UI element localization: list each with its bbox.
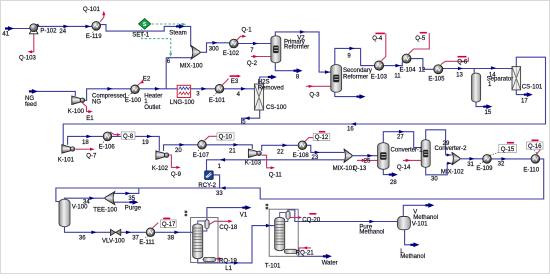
svg-text:CQ-20: CQ-20: [302, 217, 320, 223]
svg-text:13: 13: [456, 72, 463, 78]
svg-text:Q-16: Q-16: [528, 144, 542, 150]
svg-text:Secondary: Secondary: [343, 68, 373, 74]
svg-text:Purge: Purge: [125, 205, 142, 211]
svg-text:E-100: E-100: [125, 98, 142, 104]
svg-text:19: 19: [142, 140, 149, 146]
svg-text:CS-101: CS-101: [522, 85, 543, 91]
svg-text:K-102: K-102: [152, 166, 169, 172]
svg-text:Methanol: Methanol: [400, 254, 425, 260]
svg-text:Q-2: Q-2: [247, 61, 258, 67]
svg-text:Q-3: Q-3: [309, 93, 320, 99]
svg-text:RQ-21: RQ-21: [296, 251, 314, 257]
svg-text:RCY-2: RCY-2: [198, 183, 216, 189]
svg-text:LNG-100: LNG-100: [170, 100, 195, 106]
svg-text:V-100: V-100: [72, 205, 88, 211]
svg-text:30: 30: [431, 176, 438, 182]
svg-text:E3: E3: [231, 79, 239, 85]
svg-text:V-101: V-101: [412, 221, 428, 227]
svg-text:E-104: E-104: [400, 68, 417, 74]
svg-text:22: 22: [277, 149, 284, 155]
svg-text:Q-6: Q-6: [457, 59, 468, 65]
svg-text:Q-12: Q-12: [315, 135, 329, 141]
svg-text:Converter-1: Converter-1: [391, 148, 424, 154]
svg-text:Q-10: Q-10: [219, 135, 233, 141]
svg-text:MIX-102: MIX-102: [441, 170, 464, 176]
svg-text:41: 41: [2, 31, 9, 37]
svg-text:MIX-100: MIX-100: [180, 64, 203, 70]
svg-text:Steam: Steam: [169, 30, 186, 36]
svg-text:V2: V2: [297, 35, 305, 41]
svg-text:E1: E1: [86, 116, 94, 122]
svg-text:TEE-100: TEE-100: [93, 208, 117, 214]
svg-text:Q-5: Q-5: [415, 36, 426, 42]
svg-text:Reformer: Reformer: [284, 45, 309, 51]
svg-text:35: 35: [128, 196, 135, 202]
svg-text:Methanol: Methanol: [359, 229, 384, 235]
svg-text:E-119: E-119: [86, 34, 102, 40]
svg-text:P-102: P-102: [40, 28, 57, 34]
svg-text:V1: V1: [240, 212, 248, 218]
svg-text:33: 33: [216, 191, 223, 197]
svg-text:15: 15: [485, 110, 492, 116]
svg-text:Removed: Removed: [258, 86, 284, 92]
svg-text:24: 24: [59, 29, 66, 35]
svg-text:E-110: E-110: [523, 167, 539, 173]
svg-text:K-101: K-101: [58, 157, 75, 163]
svg-text:20: 20: [175, 148, 182, 154]
svg-text:T-101: T-101: [265, 263, 281, 269]
svg-text:E-105: E-105: [428, 77, 445, 83]
svg-text:Methanol: Methanol: [413, 215, 438, 221]
svg-text:32: 32: [498, 162, 505, 168]
svg-text:H2S: H2S: [258, 80, 270, 86]
svg-text:Q-1: Q-1: [242, 27, 253, 33]
svg-text:S: S: [143, 22, 147, 28]
svg-text:E-101: E-101: [209, 98, 226, 104]
svg-text:Q-103: Q-103: [19, 55, 36, 61]
svg-text:E-107: E-107: [193, 153, 210, 159]
svg-text:12: 12: [419, 68, 426, 74]
svg-text:E-108: E-108: [293, 153, 310, 159]
svg-text:11: 11: [394, 73, 401, 79]
svg-text:Q-4: Q-4: [372, 36, 383, 42]
svg-text:Q-14: Q-14: [397, 165, 411, 171]
svg-text:E-109: E-109: [476, 166, 493, 172]
svg-text:NG: NG: [92, 99, 101, 105]
svg-text:E2: E2: [143, 76, 151, 82]
svg-text:E-111: E-111: [139, 240, 155, 246]
svg-text:Q-17: Q-17: [162, 222, 176, 228]
svg-text:K-103: K-103: [245, 161, 262, 167]
svg-text:Q-101: Q-101: [83, 7, 100, 13]
svg-text:Q-8: Q-8: [123, 134, 134, 140]
svg-text:Reformer: Reformer: [343, 74, 368, 80]
svg-text:K-100: K-100: [68, 109, 85, 115]
svg-text:Converter-2: Converter-2: [435, 146, 468, 152]
svg-text:36: 36: [79, 236, 86, 242]
svg-text:RQ-19: RQ-19: [219, 258, 237, 264]
svg-text:18: 18: [82, 140, 89, 146]
svg-text:E-106: E-106: [99, 145, 116, 151]
svg-text:E-102: E-102: [223, 51, 240, 57]
svg-text:17: 17: [521, 98, 528, 104]
svg-text:16: 16: [347, 127, 354, 133]
svg-text:31: 31: [467, 162, 474, 168]
svg-text:CQ-18: CQ-18: [219, 225, 237, 231]
svg-text:23: 23: [312, 155, 319, 161]
svg-text:Q-13: Q-13: [353, 166, 367, 172]
svg-text:28: 28: [390, 180, 397, 186]
svg-text:Water: Water: [322, 260, 338, 266]
svg-text:Q-11: Q-11: [269, 172, 283, 178]
svg-text:300: 300: [209, 47, 220, 53]
svg-text:E-103: E-103: [371, 74, 388, 80]
svg-text:27: 27: [397, 135, 404, 141]
svg-text:25: 25: [364, 159, 371, 165]
svg-text:SET-1: SET-1: [132, 32, 149, 38]
svg-text:Q-15: Q-15: [501, 147, 515, 153]
svg-text:Q-7: Q-7: [86, 153, 97, 159]
svg-text:38: 38: [167, 236, 174, 242]
svg-text:feed: feed: [25, 102, 37, 108]
svg-text:Outlet: Outlet: [144, 105, 160, 111]
svg-text:CS-100: CS-100: [266, 105, 287, 111]
svg-text:Q-9: Q-9: [171, 172, 182, 178]
svg-text:L1: L1: [225, 266, 232, 272]
svg-text:21: 21: [229, 149, 236, 155]
svg-text:VLV-100: VLV-100: [102, 238, 125, 244]
